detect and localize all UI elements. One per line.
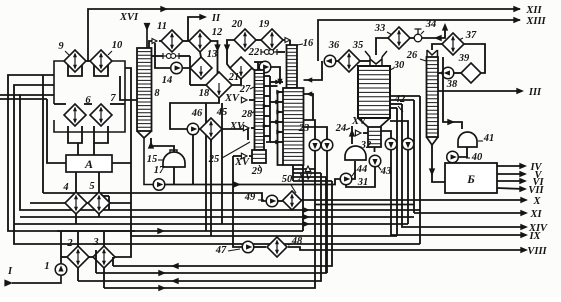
wire 27-16 s4	[264, 135, 270, 137]
wire block tab9	[68, 63, 82, 76]
wire 15 reboil	[151, 138, 174, 152]
heat exchanger 45	[200, 118, 222, 140]
wire 45 right	[222, 129, 248, 140]
wire block tab10	[94, 63, 108, 76]
heat exchanger 48	[267, 237, 287, 257]
svg-text:1: 1	[44, 261, 49, 272]
svg-text:5: 5	[89, 181, 94, 192]
wire 22 out	[271, 67, 280, 84]
svg-text:48: 48	[291, 236, 303, 247]
wire vert211	[210, 140, 212, 236]
diamond 39	[461, 63, 481, 83]
wire x204 segment	[315, 204, 414, 206]
svg-text:II: II	[211, 13, 221, 24]
wire 49-50	[278, 200, 283, 202]
heat exchanger 7	[90, 104, 112, 126]
wire 38 left	[438, 72, 442, 74]
diamond 21	[230, 57, 252, 79]
wire 34 out	[422, 25, 445, 38]
wire 35 right	[360, 60, 370, 62]
wire vert303	[302, 165, 304, 231]
heat exchanger 2	[67, 246, 89, 268]
pump 36	[324, 55, 336, 67]
svg-text:14: 14	[162, 75, 173, 86]
wire stair4	[293, 180, 332, 182]
pump 22	[259, 61, 271, 73]
wire block outline	[54, 61, 66, 104]
heat exchanger 50	[283, 191, 302, 210]
svg-text:3: 3	[92, 237, 98, 248]
wire 43 dash	[378, 166, 381, 170]
wire line y266	[113, 181, 332, 266]
wire 45 down	[210, 140, 212, 142]
wire bus y244	[14, 85, 420, 244]
svg-text:24: 24	[335, 123, 347, 134]
svg-text:26: 26	[406, 50, 418, 61]
dome 15	[163, 152, 185, 167]
pump 38	[442, 67, 454, 79]
wire vert206	[205, 103, 207, 231]
wire 42 l2	[390, 99, 414, 101]
wire XV c mark	[241, 153, 247, 159]
wire col27 top	[257, 62, 259, 70]
svg-text:49: 49	[244, 192, 256, 203]
wire block col8 feed	[120, 76, 137, 100]
svg-text:22: 22	[248, 47, 260, 58]
wire 20-19	[256, 39, 261, 41]
wire 44 dash	[352, 170, 356, 176]
svg-text:X: X	[532, 196, 541, 207]
svg-text:12: 12	[212, 27, 223, 38]
wire 42 l1	[390, 95, 420, 97]
wire col27 box	[252, 150, 266, 163]
wire vert43	[42, 75, 44, 193]
wire 3 left leg	[95, 250, 97, 273]
wire 5 stub	[98, 214, 100, 217]
wire 36-35	[336, 60, 338, 62]
wire row23	[61, 256, 67, 258]
wire XV e mark	[355, 130, 361, 136]
wire 3 down	[103, 268, 105, 288]
wire B out VII	[497, 188, 525, 189]
svg-text:20: 20	[231, 19, 243, 30]
pump 30a	[385, 138, 397, 150]
svg-text:XII: XII	[525, 5, 542, 16]
svg-text:25: 25	[208, 154, 220, 165]
wire vert193	[192, 135, 194, 185]
wire col16 in1	[304, 61, 323, 80]
wire B out VI	[497, 180, 525, 182]
wire 3 top leg	[103, 231, 105, 246]
wire block tab7	[94, 126, 108, 143]
valve 34	[414, 34, 422, 42]
svg-text:44: 44	[356, 164, 368, 175]
wire block tab6	[68, 126, 82, 143]
svg-text:XVI: XVI	[119, 12, 139, 23]
svg-text:XI: XI	[529, 209, 542, 220]
wire 24 vert	[351, 126, 353, 144]
wire 11-12	[183, 40, 189, 42]
wire block23 top	[57, 230, 135, 232]
wire col16 in2	[304, 94, 314, 120]
wire 13 link	[200, 52, 201, 57]
svg-text:37: 37	[465, 30, 477, 41]
wire 2 top leg	[77, 231, 79, 246]
wire VIII line	[288, 247, 526, 250]
svg-text:36: 36	[328, 40, 340, 51]
wire III outlet	[438, 90, 522, 92]
wire XIII line	[318, 20, 520, 61]
wire vert315b	[314, 151, 316, 169]
wire 12 right	[211, 41, 218, 74]
pump 40	[447, 151, 459, 163]
svg-text:Б: Б	[466, 172, 475, 186]
wire XII line	[88, 9, 520, 62]
wire bus y217	[20, 216, 414, 218]
wire 45 tops	[75, 172, 77, 192]
svg-text:21: 21	[228, 72, 240, 83]
wire 14 in	[155, 43, 171, 68]
wire vert270	[266, 76, 270, 142]
wire 26 loop	[432, 44, 442, 50]
wire 15 stem	[173, 167, 175, 185]
wire vert233	[233, 156, 242, 247]
pump 49	[266, 195, 278, 207]
svg-text:VIII: VIII	[527, 246, 547, 257]
wire XV b mark	[243, 125, 249, 131]
pump 47	[242, 241, 254, 253]
heat exchanger 33	[388, 27, 410, 49]
wire 4 stub	[75, 214, 77, 224]
svg-text:XV: XV	[229, 121, 245, 132]
wire 23 feed	[304, 120, 316, 140]
svg-text:XV: XV	[297, 172, 313, 183]
heat exchanger 9	[64, 50, 86, 72]
svg-text:10: 10	[112, 40, 123, 51]
heat exchanger 4	[65, 192, 87, 214]
wire stair1	[293, 168, 315, 170]
wire XV a mark	[241, 97, 247, 103]
wire col30 out	[374, 147, 376, 152]
wire 33 dash	[387, 32, 392, 35]
svg-text:8: 8	[154, 88, 160, 99]
wire col26 side	[443, 57, 462, 129]
wire 43 out	[346, 167, 375, 187]
wire 33 left	[376, 38, 388, 55]
wire 40 dash	[466, 157, 470, 159]
svg-text:35: 35	[352, 40, 364, 51]
wire 13 left	[189, 67, 191, 69]
wire 27-16 s2	[264, 95, 270, 97]
wire col8 down	[144, 138, 153, 185]
svg-text:33: 33	[374, 23, 386, 34]
wire stair3	[293, 176, 326, 178]
wire pump1 vert	[60, 231, 62, 263]
wire block mid	[54, 103, 66, 105]
svg-text:43: 43	[380, 166, 392, 177]
svg-text:34: 34	[425, 19, 437, 30]
svg-text:32: 32	[360, 140, 372, 151]
dome 32	[345, 146, 366, 160]
column 8	[137, 48, 152, 131]
wire 16 dash	[297, 44, 303, 45]
heat exchanger 10	[90, 50, 112, 72]
column 26 crown	[427, 50, 438, 57]
wire X line	[301, 199, 526, 201]
wire 47 dash	[228, 249, 240, 251]
wire 49 dash	[258, 199, 264, 201]
diamond 18	[206, 72, 232, 98]
wire vert420	[419, 96, 421, 244]
wire 21 right	[252, 68, 254, 70]
heat exchanger 12	[189, 30, 211, 52]
wire col30 taper	[358, 118, 390, 127]
wire line y273	[96, 177, 326, 273]
svg-text:28: 28	[241, 109, 253, 120]
wire col26 bottom	[427, 137, 439, 145]
wire 50 dash	[291, 185, 296, 193]
column 26	[427, 57, 439, 137]
wire pumps30 up	[381, 131, 391, 138]
wire 25 dash	[222, 142, 250, 158]
wire vert397	[396, 108, 398, 236]
diamond 13	[190, 57, 212, 79]
pump 1	[55, 264, 67, 276]
svg-text:7: 7	[110, 93, 116, 104]
wire 41 dash	[478, 140, 483, 142]
wire line y288	[104, 169, 315, 288]
column 30 crown	[365, 51, 387, 66]
wire 45 row	[30, 202, 65, 204]
svg-text:27: 27	[239, 84, 251, 95]
svg-text:13: 13	[207, 49, 218, 60]
wire XI line	[414, 212, 526, 214]
wire 2 down	[77, 268, 79, 281]
svg-text:47: 47	[215, 245, 227, 256]
svg-text:4: 4	[62, 182, 68, 193]
wire 14 right	[183, 68, 191, 85]
svg-text:6: 6	[85, 95, 91, 106]
wire 42 l4	[390, 107, 397, 109]
wire 33-34	[410, 37, 414, 39]
wire col16 neck	[287, 45, 298, 88]
wire 27-16 s1	[264, 75, 270, 77]
column 27	[255, 70, 265, 150]
svg-text:XV: XV	[351, 116, 367, 127]
wire 37 right	[464, 44, 485, 73]
orifice 14a	[162, 53, 164, 59]
svg-text:31: 31	[357, 177, 369, 188]
wire col30 box	[368, 127, 381, 147]
wire 41 out	[459, 147, 467, 157]
wire left bus outer	[8, 75, 303, 231]
svg-text:XV: XV	[224, 93, 240, 104]
wire XIV line	[402, 104, 526, 227]
wire line y193	[43, 193, 266, 201]
svg-text:19: 19	[259, 19, 270, 30]
wire bus y224	[14, 223, 408, 225]
wire 17 out	[165, 179, 340, 185]
svg-text:15: 15	[147, 154, 158, 165]
wire 19 out	[283, 39, 286, 41]
wire 21 feed	[227, 40, 238, 68]
wire B out IV	[497, 165, 525, 167]
wire 39-38	[454, 72, 461, 74]
pump 17	[153, 179, 165, 191]
svg-text:III: III	[528, 87, 542, 98]
wire IX line	[391, 150, 526, 235]
box A	[66, 155, 112, 172]
wire 3 right leg	[112, 257, 114, 266]
svg-text:40: 40	[471, 152, 483, 163]
wire II outlet	[188, 17, 205, 41]
wire col16 out	[292, 165, 294, 181]
svg-text:46: 46	[191, 108, 203, 119]
svg-text:45: 45	[216, 107, 228, 118]
heat exchanger 37	[442, 33, 464, 55]
svg-text:39: 39	[458, 53, 470, 64]
wire leg A2	[93, 143, 95, 155]
pump 43	[369, 155, 381, 167]
svg-text:17: 17	[154, 165, 165, 176]
pump 23b	[321, 139, 333, 151]
wire XVI feed	[146, 27, 148, 48]
pump 23a	[309, 139, 321, 151]
wire stair2	[293, 172, 321, 174]
wire vert414	[413, 100, 415, 213]
column 16	[283, 88, 304, 165]
wire vert327	[326, 151, 328, 273]
wire 26 dash	[420, 59, 426, 61]
wire 18 out	[170, 98, 219, 129]
wire col8 to11	[149, 41, 152, 48]
wire bus pair	[0, 98, 47, 100]
orifice 22	[260, 49, 262, 55]
wire 18 in	[190, 84, 206, 86]
wire col8 cone	[137, 131, 152, 138]
svg-text:IX: IX	[528, 231, 541, 242]
wire vert131	[125, 68, 131, 236]
svg-text:18: 18	[199, 88, 210, 99]
heat exchanger 35	[338, 50, 360, 72]
wire 47-48	[254, 246, 266, 248]
wire A right	[112, 162, 131, 164]
wire left bus inner	[20, 95, 420, 210]
wire 32 stem	[352, 161, 355, 179]
dome 41	[458, 132, 477, 147]
wire 24 dash	[346, 128, 350, 130]
pump 31	[340, 173, 352, 185]
heat exchanger 3	[93, 246, 115, 268]
column 30	[358, 66, 390, 118]
svg-text:30: 30	[393, 60, 405, 71]
svg-text:11: 11	[157, 21, 167, 32]
svg-text:XIII: XIII	[525, 16, 546, 27]
svg-text:A: A	[84, 157, 93, 171]
wire 37 dash	[459, 38, 463, 40]
heat exchanger 11	[161, 30, 183, 52]
wire 18-21	[232, 79, 241, 85]
heat exchanger 6	[64, 104, 86, 126]
wire vert277	[278, 92, 284, 165]
wire 42 l3	[390, 103, 402, 105]
box B	[445, 163, 497, 193]
wire I inlet	[12, 276, 61, 283]
heat exchanger 19	[261, 29, 283, 51]
wire leg A1	[77, 143, 79, 155]
svg-text:23: 23	[298, 123, 310, 134]
svg-text:9: 9	[58, 41, 64, 52]
pump 30b	[402, 138, 414, 150]
svg-text:16: 16	[303, 38, 314, 49]
wire vert47a	[47, 99, 66, 163]
pump 14	[171, 62, 183, 74]
wire line y281	[78, 173, 321, 281]
wire 46-45	[199, 128, 200, 130]
pump 46	[187, 123, 199, 135]
wire vert222	[221, 103, 223, 224]
heat exchanger 5	[88, 192, 110, 214]
wire 42 dash	[398, 106, 403, 112]
wire B out V	[497, 173, 525, 175]
svg-text:2: 2	[66, 238, 73, 249]
wire bus y236	[131, 235, 397, 237]
svg-text:50: 50	[282, 174, 293, 185]
svg-text:VII: VII	[528, 185, 544, 196]
svg-text:41: 41	[483, 133, 495, 144]
wire XV d mark	[305, 166, 311, 172]
wire 15 dash	[158, 159, 163, 161]
heat exchanger 20	[234, 29, 256, 51]
wire 27-16 s3	[264, 115, 270, 117]
svg-text:38: 38	[446, 79, 458, 90]
